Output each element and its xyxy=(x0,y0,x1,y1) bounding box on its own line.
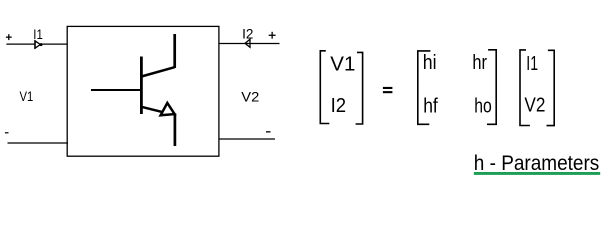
transistor Q1 base lead xyxy=(91,89,142,91)
svg-text:hf: hf xyxy=(423,94,438,117)
svg-text:I1: I1 xyxy=(526,52,538,75)
svg-text:ho: ho xyxy=(474,94,492,117)
matrix 2 right bracket xyxy=(487,50,496,125)
plus sign input xyxy=(6,34,12,40)
svg-text:I2: I2 xyxy=(242,26,253,41)
current arrow I2 xyxy=(245,39,250,47)
transistor Q1 collector lead xyxy=(173,34,176,68)
svg-text:I1: I1 xyxy=(33,27,43,42)
wire top-left input xyxy=(6,43,67,45)
wire top-right output xyxy=(219,43,280,45)
svg-text:V1: V1 xyxy=(330,52,355,75)
transistor Q1 emitter arrow xyxy=(161,103,175,115)
svg-text:V1: V1 xyxy=(20,88,34,104)
matrix 1 left bracket xyxy=(320,51,329,124)
current arrow I1 xyxy=(35,40,43,49)
svg-text:I2: I2 xyxy=(331,94,347,117)
svg-text:hi: hi xyxy=(423,51,437,74)
svg-text:h - Parameters: h - Parameters xyxy=(474,151,600,175)
transistor Q1 emitter lead xyxy=(174,114,177,147)
matrix 3 right bracket xyxy=(547,50,555,125)
svg-text:hr: hr xyxy=(472,51,487,74)
equals sign xyxy=(383,87,393,93)
minus sign input xyxy=(5,132,9,133)
matrix 2 left bracket xyxy=(418,51,431,124)
plus sign output xyxy=(269,32,276,39)
transistor Q1 emitter diagonal xyxy=(141,107,168,114)
transistor Q1 base bar xyxy=(140,57,143,115)
wire bottom-right return xyxy=(219,138,275,140)
matrix 1 right bracket xyxy=(356,52,363,124)
matrix 3 left bracket xyxy=(520,50,530,126)
wire bottom-left return xyxy=(8,142,69,144)
minus sign output xyxy=(266,131,271,132)
two-port network box xyxy=(67,26,219,156)
transistor Q1 collector diagonal xyxy=(141,67,174,76)
caption green underline xyxy=(474,172,600,175)
svg-text:V2: V2 xyxy=(241,88,259,104)
svg-text:V2: V2 xyxy=(524,94,545,117)
